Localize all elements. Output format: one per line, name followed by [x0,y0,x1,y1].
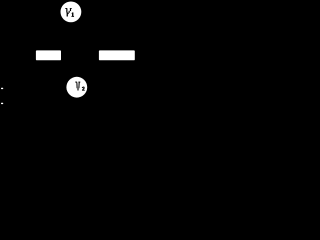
wire: voltmeter V1 leads [36,19,99,50]
battery B1 lower plate [1,103,3,104]
resistor R2 [99,50,135,60]
resistor R1 [36,50,61,60]
wire: segment joining resistor R1 and resistor R2 [61,54,99,56]
battery B1 upper plate [1,88,3,89]
voltmeter V2 [66,77,87,98]
voltmeter V1 [61,2,82,23]
wire: left branch from battery up to middle resistor row [2,55,36,88]
wire: bottom return loop from battery around to right end of resistor row [2,55,160,140]
wire: voltmeter V2 leads [61,60,99,80]
